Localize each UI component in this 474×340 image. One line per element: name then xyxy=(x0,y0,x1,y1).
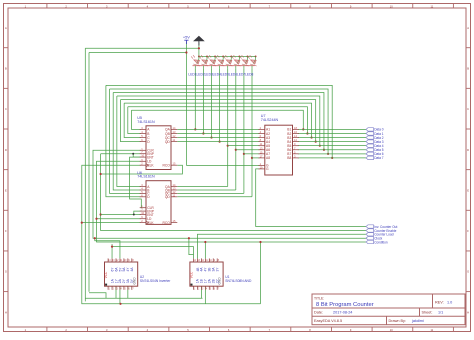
svg-text:SN74LS04N Inverter: SN74LS04N Inverter xyxy=(140,279,171,283)
svg-text:RCO: RCO xyxy=(162,164,170,168)
svg-text:B: B xyxy=(467,66,469,70)
svg-text:Date:: Date: xyxy=(314,311,323,315)
svg-text:QD: QD xyxy=(165,195,171,199)
svg-text:74LS161N: 74LS161N xyxy=(137,120,155,124)
svg-text:74LS161N: 74LS161N xyxy=(137,175,155,179)
svg-text:VCC: VCC xyxy=(190,271,194,278)
svg-text:C: C xyxy=(467,107,469,111)
svg-text:D: D xyxy=(467,148,469,152)
svg-text:LED8: LED8 xyxy=(245,72,253,76)
svg-text:A: A xyxy=(5,26,7,30)
svg-text:Condition: Condition xyxy=(374,240,388,244)
svg-text:B8: B8 xyxy=(287,156,291,160)
svg-text:H: H xyxy=(467,310,469,314)
svg-text:Sheet:: Sheet: xyxy=(422,311,433,315)
svg-text:SN74LS08N AND: SN74LS08N AND xyxy=(225,279,252,283)
svg-text:G: G xyxy=(266,167,269,171)
svg-text:1/1: 1/1 xyxy=(438,311,443,315)
svg-text:H: H xyxy=(5,310,7,314)
svg-text:+5V: +5V xyxy=(183,35,190,40)
svg-text:REV:: REV: xyxy=(435,301,444,305)
svg-text:Drawn By:: Drawn By: xyxy=(389,319,407,323)
svg-text:2017-08-24: 2017-08-24 xyxy=(333,311,352,315)
svg-text:VCC: VCC xyxy=(104,271,108,278)
svg-text:C: C xyxy=(5,107,7,111)
svg-text:Data 7: Data 7 xyxy=(374,156,384,160)
svg-text:B: B xyxy=(5,66,7,70)
svg-text:jakdimi: jakdimi xyxy=(411,319,424,323)
svg-text:QD: QD xyxy=(165,140,171,144)
svg-text:RCO: RCO xyxy=(162,221,170,225)
svg-text:G: G xyxy=(5,270,7,274)
svg-text:G: G xyxy=(467,270,469,274)
svg-text:8 Bit Program Counter: 8 Bit Program Counter xyxy=(316,302,374,308)
svg-text:E: E xyxy=(467,188,469,192)
svg-text:EasyEDA V4.8.5: EasyEDA V4.8.5 xyxy=(314,319,342,323)
svg-text:1.0: 1.0 xyxy=(447,301,452,305)
svg-text:D: D xyxy=(5,148,7,152)
svg-text:A8: A8 xyxy=(266,156,270,160)
svg-text:TITLE:: TITLE: xyxy=(314,296,324,300)
svg-text:A: A xyxy=(467,26,469,30)
svg-text:74LS244N: 74LS244N xyxy=(261,118,279,122)
svg-text:E: E xyxy=(5,188,7,192)
